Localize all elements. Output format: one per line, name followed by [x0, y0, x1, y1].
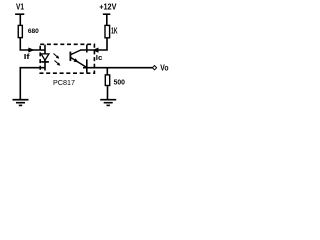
light arrow 1 — [54, 54, 58, 58]
emitter arrowhead — [74, 58, 79, 62]
svg-text:1K: 1K — [111, 26, 118, 36]
LED D1 vertical lead — [44, 45, 46, 71]
emitter lead diagonal — [71, 57, 87, 67]
wire V1 to R 680 — [19, 14, 21, 25]
resistor R2 1K — [105, 25, 110, 37]
phototransistor Q1 base bar — [69, 52, 71, 61]
collector lead diagonal — [71, 50, 81, 55]
svg-text:500: 500 — [114, 77, 125, 86]
wire R680 to LED anode — [20, 38, 45, 50]
wire +12V to R 1K — [106, 14, 108, 25]
ground left — [13, 100, 29, 106]
optocoupler U1 dashed box — [40, 44, 94, 73]
light arrow 2 — [55, 61, 59, 65]
output wire to Vo — [83, 67, 152, 69]
LED cathode bar — [41, 61, 49, 63]
resistor R3 500 — [105, 75, 109, 86]
current arrow If — [28, 48, 34, 53]
svg-text:V1: V1 — [16, 2, 24, 12]
wire R500 to ground — [107, 86, 109, 99]
terminal V1 — [15, 13, 24, 15]
svg-text:PC817: PC817 — [53, 78, 75, 87]
collector wire to R 1K — [80, 38, 107, 50]
ground right — [100, 100, 116, 106]
terminal Vo diamond — [152, 66, 156, 70]
current arrow Ic — [92, 48, 98, 53]
svg-text:If: If — [24, 52, 31, 61]
LED D1 triangle — [41, 54, 49, 60]
resistor R1 680 — [18, 25, 22, 37]
wire to R 500 — [106, 68, 108, 75]
collector pin stub — [86, 45, 88, 53]
svg-text:+12V: +12V — [99, 2, 117, 12]
svg-text:680: 680 — [28, 28, 39, 35]
svg-text:Vo: Vo — [160, 63, 168, 73]
emitter pin stub — [86, 59, 88, 72]
svg-text:Ic: Ic — [96, 53, 103, 62]
terminal +12V — [103, 13, 111, 15]
LED cathode wire to ground — [20, 68, 45, 99]
